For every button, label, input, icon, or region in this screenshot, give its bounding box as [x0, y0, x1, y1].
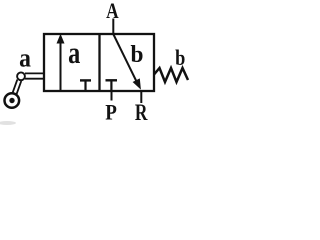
- roller axle dot: [9, 98, 14, 103]
- svg-text:R: R: [135, 101, 148, 126]
- port line P: [111, 90, 113, 101]
- svg-text:b: b: [130, 42, 143, 68]
- valve body: two-position box: [44, 34, 154, 91]
- blocked port symbol (right square): [106, 79, 118, 81]
- blocked port symbol (left square): [80, 79, 91, 81]
- svg-text:A: A: [106, 0, 119, 23]
- label A: [106, 0, 119, 23]
- port line R: [140, 90, 142, 103]
- roller wheel: [5, 93, 20, 108]
- svg-text:a: a: [19, 43, 31, 73]
- lever arm (double line): [14, 80, 20, 96]
- label R: [135, 101, 148, 126]
- label b (inside right square): [130, 42, 143, 68]
- spring return: [154, 68, 188, 82]
- label b (spring side): [175, 46, 185, 70]
- flow path A to R (right square diagonal): [114, 35, 138, 84]
- label a (inside left square): [68, 36, 80, 70]
- port line A: [112, 19, 114, 35]
- pivot circle: [17, 72, 25, 80]
- position divider: [98, 34, 100, 91]
- plunger stem (double line): [25, 72, 44, 74]
- scan smudge: [0, 121, 16, 125]
- svg-text:b: b: [175, 46, 185, 70]
- label P: [105, 99, 117, 125]
- label a (actuator side): [19, 43, 31, 73]
- svg-text:a: a: [68, 36, 80, 70]
- svg-text:P: P: [105, 99, 117, 125]
- flow arrow (left square, P to A): [60, 42, 62, 90]
